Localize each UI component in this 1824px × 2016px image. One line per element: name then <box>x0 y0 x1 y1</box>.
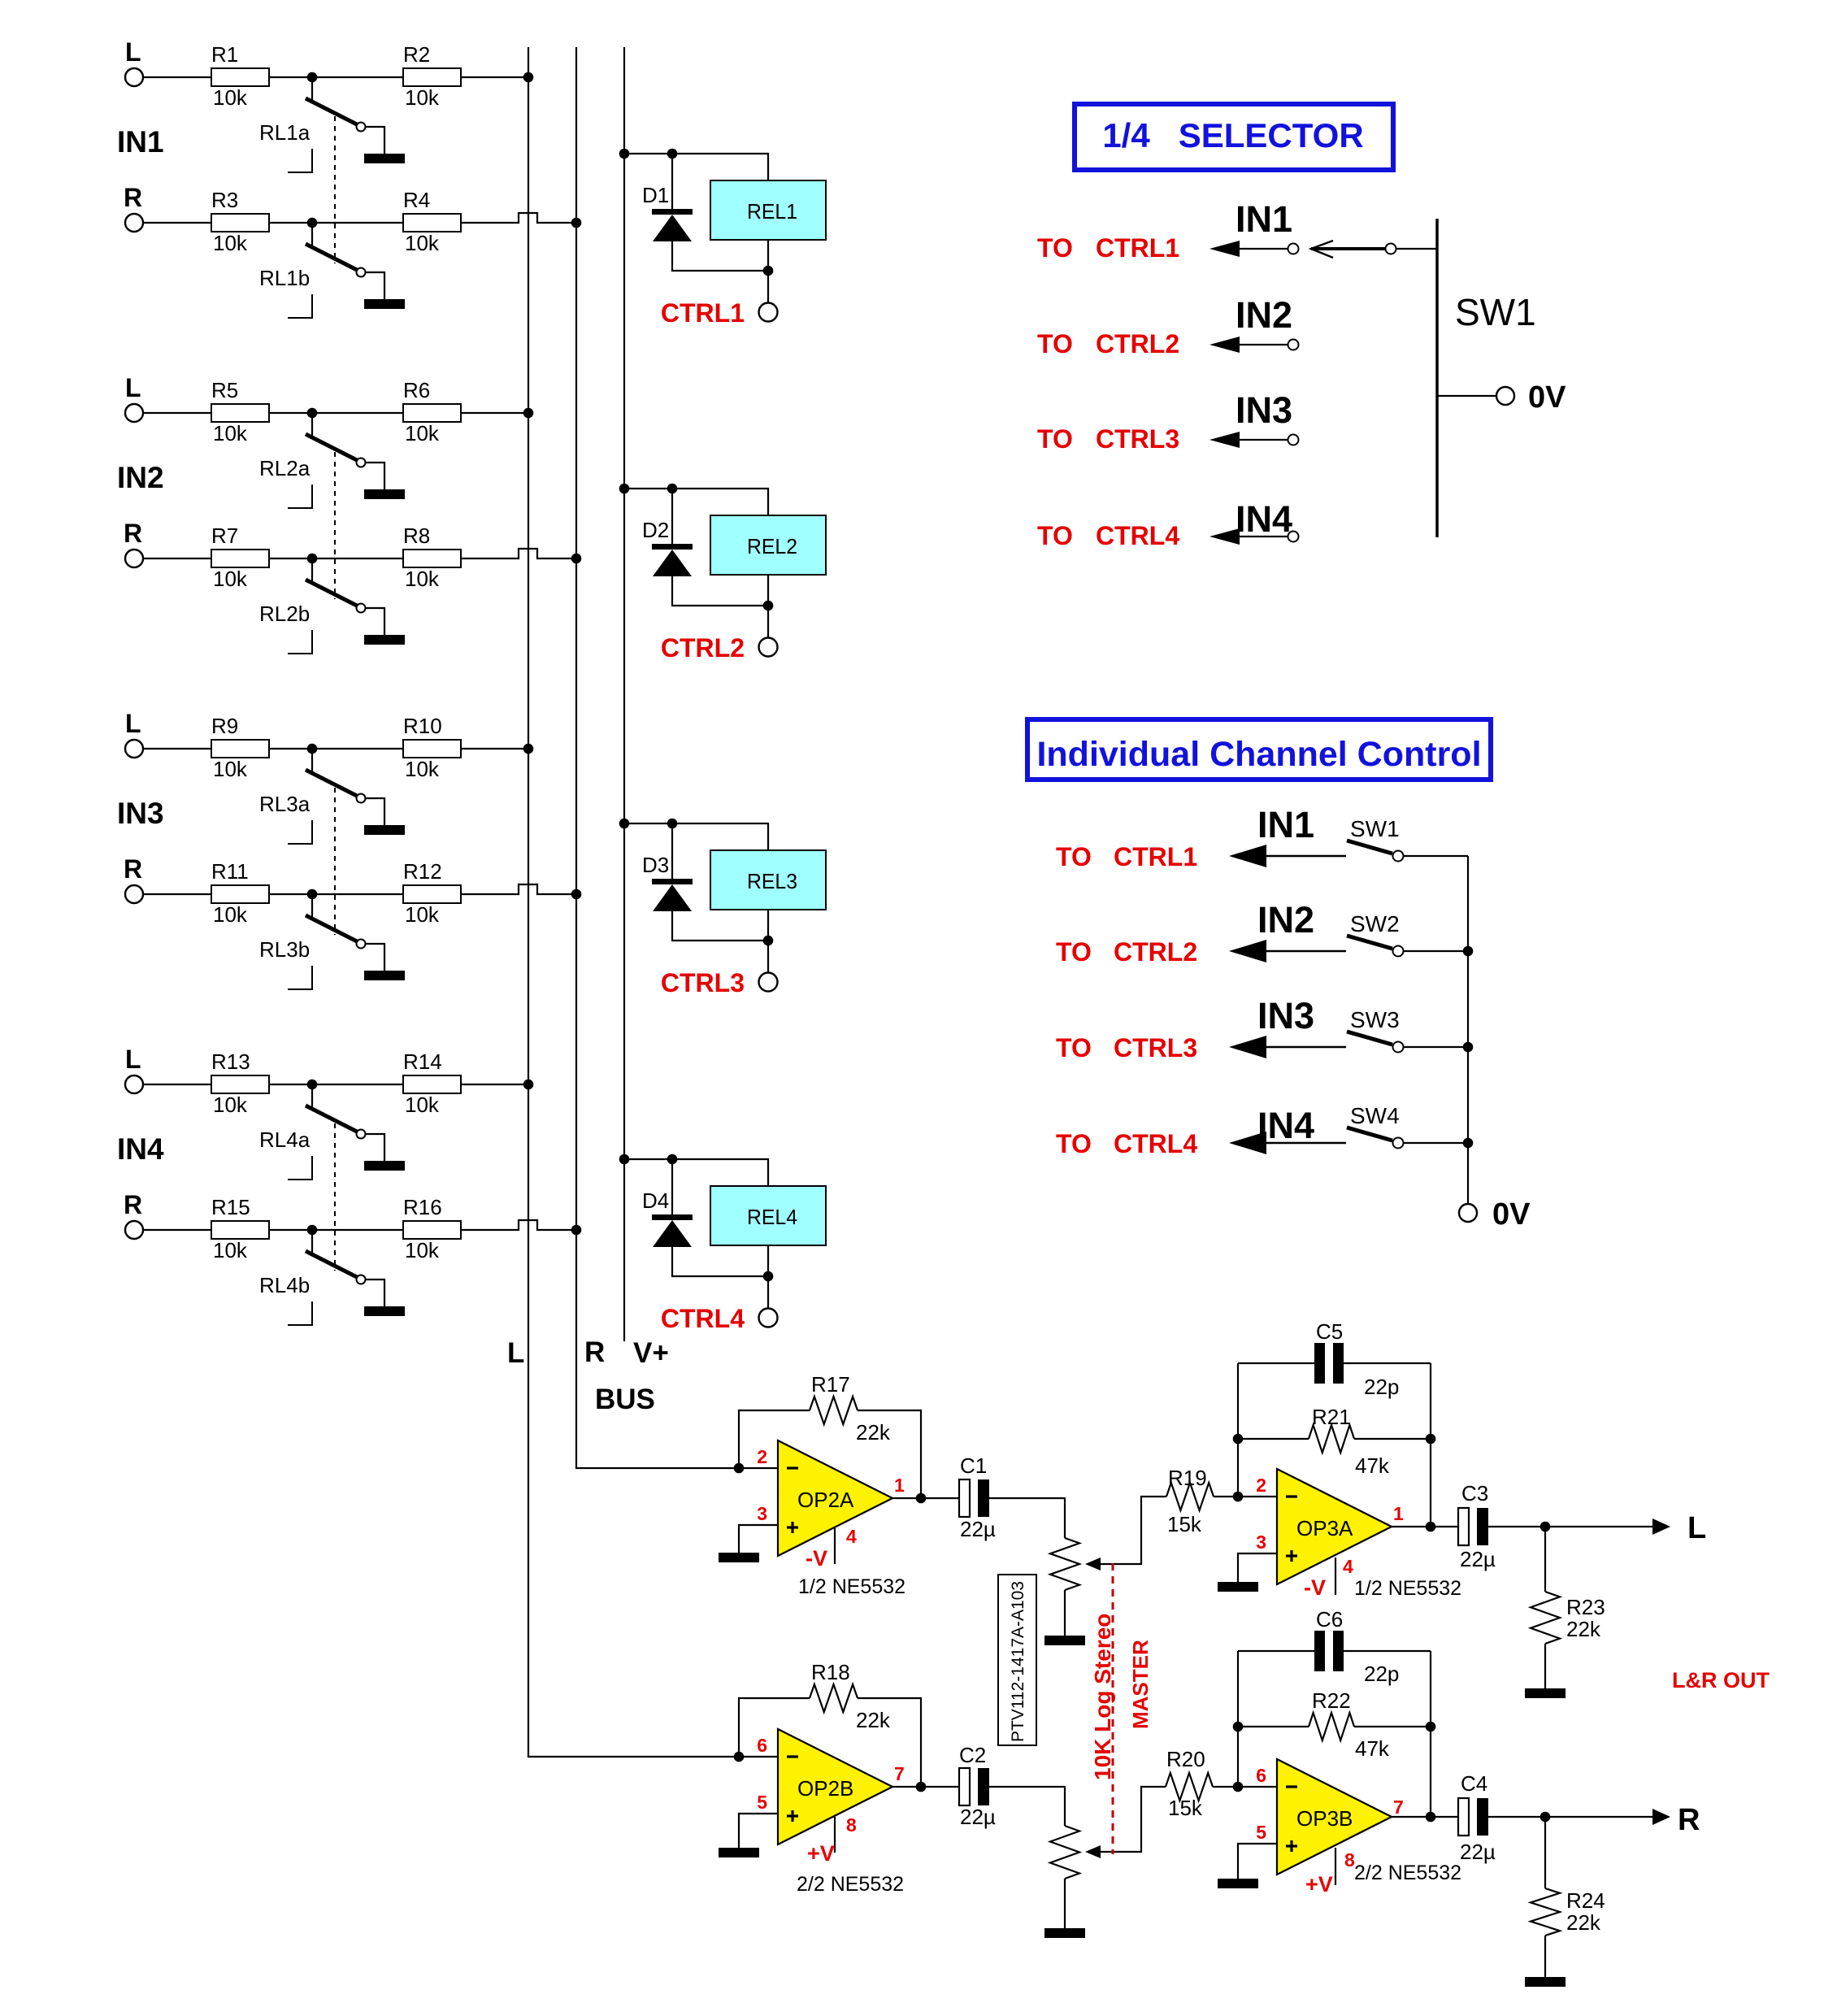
svg-text:R: R <box>124 1190 142 1219</box>
svg-text:10k: 10k <box>213 85 248 110</box>
ground <box>364 971 405 980</box>
wire <box>1404 1142 1468 1144</box>
svg-text:R: R <box>1678 1803 1700 1837</box>
capacitor C1 <box>959 1479 970 1517</box>
wire arrow to CTRL1 (individual) <box>1229 845 1266 867</box>
wire OP3B non-inverting input to ground <box>1238 1844 1277 1879</box>
node junction on R bus <box>571 889 582 900</box>
title box 1/4 SELECTOR <box>1075 104 1393 170</box>
svg-text:R4: R4 <box>403 188 430 212</box>
resistor R18 feedback <box>739 1698 810 1757</box>
wire <box>1064 1879 1066 1928</box>
node junction R3-R4 <box>307 218 318 228</box>
wire arrow R output <box>1652 1809 1670 1825</box>
svg-text:6: 6 <box>757 1735 767 1756</box>
svg-text:1/2 NE5532: 1/2 NE5532 <box>1354 1577 1461 1600</box>
svg-text:R6: R6 <box>403 378 430 402</box>
wire arrow to CTRL4 <box>1209 528 1240 545</box>
resistor R14 <box>403 1075 461 1093</box>
wire arrow L output <box>1652 1519 1670 1535</box>
svg-text:4: 4 <box>1343 1556 1353 1577</box>
relay contact RL4b <box>311 1230 313 1255</box>
relay coil REL1 <box>710 180 826 240</box>
resistor R1 <box>211 68 269 86</box>
relay contact RL2b <box>311 558 313 584</box>
svg-text:10k: 10k <box>405 1238 440 1262</box>
svg-text:R20: R20 <box>1166 1747 1205 1771</box>
relay coil REL4 <box>710 1186 826 1245</box>
capacitor C3 <box>1458 1508 1469 1545</box>
node junction <box>1426 1434 1436 1445</box>
ground <box>1525 1688 1566 1698</box>
svg-text:C2: C2 <box>959 1743 986 1767</box>
svg-text:R3: R3 <box>211 188 238 212</box>
svg-text:R19: R19 <box>1168 1466 1207 1490</box>
mechanical link RL2 <box>334 452 336 599</box>
svg-text:47k: 47k <box>1355 1736 1390 1761</box>
wire <box>767 575 769 606</box>
wire <box>143 1229 211 1231</box>
svg-text:R: R <box>124 519 142 548</box>
node junction R1-R2 <box>307 72 318 83</box>
node junction on 0V line <box>1463 1042 1474 1053</box>
svg-text:R12: R12 <box>403 859 442 884</box>
svg-text:RL3b: RL3b <box>259 937 310 962</box>
ground <box>364 635 405 645</box>
svg-text:RL4a: RL4a <box>259 1127 311 1152</box>
svg-text:IN4: IN4 <box>1257 1105 1314 1146</box>
resistor R6 <box>403 404 461 422</box>
node junction D4-REL4 <box>667 1154 678 1165</box>
actuator bracket RL1b <box>288 294 312 318</box>
svg-text:+V: +V <box>807 1841 835 1866</box>
svg-text:10k: 10k <box>405 902 440 927</box>
wire <box>672 241 768 271</box>
svg-text:-V: -V <box>806 1546 827 1571</box>
svg-text:D3: D3 <box>642 853 669 877</box>
svg-text:CTRL4: CTRL4 <box>1114 1129 1197 1158</box>
svg-text:22µ: 22µ <box>1460 1840 1496 1864</box>
ground <box>364 1306 405 1316</box>
actuator bracket RL3b <box>288 966 312 989</box>
node IN4 contact (selector) <box>1288 532 1299 542</box>
actuator bracket RL4a <box>288 1156 312 1180</box>
svg-text:CTRL3: CTRL3 <box>661 968 745 997</box>
svg-text:REL2: REL2 <box>747 534 797 558</box>
wire <box>1238 1786 1277 1788</box>
node junction on L bus <box>523 72 534 83</box>
wire <box>1404 1046 1468 1048</box>
wire <box>1238 1496 1277 1497</box>
wire <box>1392 1526 1458 1527</box>
node junction on V+ bus <box>619 149 630 159</box>
svg-text:L: L <box>125 373 141 402</box>
wire <box>312 558 403 559</box>
svg-text:10k: 10k <box>213 421 248 445</box>
relay coil REL3 <box>710 850 826 910</box>
wire pin 4 stub <box>834 1528 836 1564</box>
ground <box>364 1161 405 1171</box>
wire <box>767 910 769 941</box>
svg-text:R18: R18 <box>811 1660 850 1684</box>
node IN1 contact (selector) <box>1288 244 1299 254</box>
actuator bracket RL4b <box>288 1301 312 1325</box>
node junction <box>763 1271 774 1282</box>
svg-text:3: 3 <box>1256 1532 1266 1553</box>
wire <box>143 748 211 749</box>
svg-text:IN1: IN1 <box>1236 198 1292 240</box>
node junction on R bus <box>571 1225 582 1236</box>
wire <box>143 1084 211 1085</box>
wire <box>672 1247 768 1276</box>
svg-text:CTRL4: CTRL4 <box>1096 521 1179 550</box>
svg-text:10K Log Stereo: 10K Log Stereo <box>1090 1614 1115 1780</box>
svg-text:2/2 NE5532: 2/2 NE5532 <box>1354 1862 1461 1884</box>
wire <box>767 240 769 271</box>
node junction D3-REL3 <box>667 819 678 829</box>
node junction on R bus <box>571 554 582 564</box>
node junction R7-R8 <box>307 554 318 564</box>
ground <box>364 825 405 835</box>
wire hop over L bus <box>461 549 576 558</box>
svg-text:R24: R24 <box>1566 1888 1605 1913</box>
svg-text:1: 1 <box>1393 1503 1404 1524</box>
svg-text:L: L <box>125 709 141 738</box>
svg-text:R16: R16 <box>403 1195 442 1219</box>
svg-text:10k: 10k <box>213 1093 248 1117</box>
svg-text:R2: R2 <box>403 42 430 67</box>
svg-text:RL1a: RL1a <box>259 120 311 145</box>
svg-text:10k: 10k <box>405 757 440 781</box>
wire <box>366 944 384 971</box>
wire <box>366 127 384 154</box>
svg-text:IN2: IN2 <box>1236 294 1292 336</box>
svg-text:0V: 0V <box>1528 380 1566 415</box>
svg-text:BUS: BUS <box>595 1384 655 1415</box>
wire arrow to CTRL2 <box>1209 337 1240 353</box>
svg-text:REL4: REL4 <box>747 1205 797 1229</box>
resistor R2 <box>403 68 461 86</box>
svg-text:1/2 NE5532: 1/2 NE5532 <box>798 1575 905 1598</box>
wire <box>143 893 211 895</box>
wire <box>269 412 312 414</box>
node IN2 contact (selector) <box>1288 340 1299 350</box>
wire <box>624 488 672 489</box>
svg-text:IN1: IN1 <box>1257 804 1314 845</box>
actuator bracket RL2b <box>288 630 312 654</box>
diode D2 <box>671 489 673 544</box>
wire <box>1437 395 1496 397</box>
svg-text:10k: 10k <box>405 1093 440 1117</box>
resistor R9 <box>211 740 269 758</box>
svg-text:C3: C3 <box>1461 1481 1488 1505</box>
svg-text:CTRL3: CTRL3 <box>1114 1033 1197 1062</box>
wire <box>312 893 403 895</box>
svg-text:8: 8 <box>846 1814 857 1836</box>
svg-text:IN4: IN4 <box>117 1132 164 1166</box>
terminal CTRL1 <box>759 303 778 322</box>
wire <box>143 222 211 224</box>
svg-text:L: L <box>125 1045 141 1074</box>
resistor R24 <box>1544 1817 1546 1888</box>
wire arrow to CTRL3 (individual) <box>1229 1036 1266 1058</box>
wire <box>767 1276 769 1309</box>
ground <box>1218 1582 1258 1592</box>
diode D3 <box>671 823 673 879</box>
node junction on V+ bus <box>619 819 630 829</box>
wire <box>312 412 403 414</box>
svg-text:22p: 22p <box>1364 1662 1399 1686</box>
wire <box>366 463 384 489</box>
actuator bracket RL3a <box>288 820 312 844</box>
resistor R17 feedback <box>739 1410 810 1468</box>
svg-text:CTRL2: CTRL2 <box>1114 937 1197 967</box>
svg-text:PTV112-1417A-A103: PTV112-1417A-A103 <box>1009 1581 1027 1742</box>
capacitor C5 feedback <box>1238 1362 1314 1364</box>
wire <box>672 911 768 941</box>
svg-text:22µ: 22µ <box>1460 1547 1496 1571</box>
svg-text:5: 5 <box>757 1792 767 1813</box>
svg-text:IN4: IN4 <box>1236 498 1292 540</box>
ground <box>1044 1928 1085 1938</box>
wire feedback left rail OP3A <box>1237 1363 1239 1497</box>
wire <box>269 558 312 559</box>
svg-text:CTRL1: CTRL1 <box>1114 842 1197 871</box>
svg-text:10k: 10k <box>213 902 248 927</box>
diode D1 <box>671 154 673 209</box>
svg-text:C5: C5 <box>1316 1319 1343 1344</box>
wire <box>1404 855 1468 857</box>
svg-text:10k: 10k <box>405 85 440 110</box>
title box Individual Channel Control <box>1027 719 1491 780</box>
wire <box>672 1159 768 1186</box>
wire <box>767 606 769 638</box>
svg-text:C6: C6 <box>1316 1607 1343 1631</box>
capacitor C6 feedback <box>1238 1650 1314 1652</box>
wire <box>269 76 312 78</box>
wire <box>461 748 528 749</box>
wire V+ bus <box>623 47 625 1341</box>
wire <box>624 1158 672 1160</box>
svg-text:V+: V+ <box>633 1337 669 1369</box>
wire <box>892 1497 959 1499</box>
relay contact RL1a <box>311 77 313 102</box>
wire <box>1488 1816 1655 1818</box>
svg-text:RL3a: RL3a <box>259 792 311 816</box>
wire feedback right rail OP3B <box>1430 1651 1431 1817</box>
svg-text:10k: 10k <box>213 231 248 255</box>
svg-text:0V: 0V <box>1492 1197 1531 1232</box>
wire <box>269 1229 312 1231</box>
svg-text:MASTER: MASTER <box>1128 1640 1153 1729</box>
ground <box>364 154 405 163</box>
node junction on L bus <box>523 1080 534 1090</box>
svg-text:7: 7 <box>1393 1797 1404 1818</box>
node junction OP3A output <box>1426 1522 1436 1532</box>
svg-text:15k: 15k <box>1168 1796 1203 1820</box>
node junction on V+ bus <box>619 1154 630 1165</box>
node junction <box>763 936 774 946</box>
resistor R11 <box>211 885 269 903</box>
svg-text:47k: 47k <box>1355 1453 1390 1478</box>
resistor R5 <box>211 404 269 422</box>
resistor R16 <box>403 1221 461 1239</box>
relay contact RL4a <box>311 1084 313 1110</box>
svg-text:TO: TO <box>1056 842 1092 871</box>
svg-text:IN3: IN3 <box>1257 995 1314 1036</box>
wire L bus <box>528 47 778 1757</box>
op-amp U3B OP3B <box>1277 1759 1392 1875</box>
svg-text:3: 3 <box>757 1503 767 1524</box>
terminal CTRL2 <box>759 638 778 657</box>
wire <box>1392 1816 1458 1818</box>
node junction L output <box>1540 1522 1551 1532</box>
node junction on L bus <box>523 744 534 754</box>
wire <box>269 222 312 224</box>
wire feedback left rail OP3B <box>1237 1651 1239 1787</box>
svg-text:R17: R17 <box>811 1372 850 1397</box>
svg-text:10k: 10k <box>405 567 440 591</box>
relay contact RL3a <box>311 749 313 774</box>
svg-text:RL2a: RL2a <box>259 456 311 480</box>
svg-text:22k: 22k <box>1566 1910 1601 1935</box>
svg-text:R1: R1 <box>211 42 238 67</box>
wire <box>312 1229 403 1231</box>
svg-text:REL1: REL1 <box>747 199 797 224</box>
svg-text:R7: R7 <box>211 524 238 548</box>
wire feedback right rail OP3A <box>1430 1363 1431 1527</box>
wire arrow to CTRL1 <box>1209 241 1240 257</box>
node junction <box>1233 1434 1244 1445</box>
svg-text:IN2: IN2 <box>117 461 164 494</box>
svg-text:CTRL2: CTRL2 <box>1096 329 1179 358</box>
svg-text:22µ: 22µ <box>960 1517 996 1541</box>
svg-text:R13: R13 <box>211 1049 250 1074</box>
svg-text:R: R <box>584 1336 605 1368</box>
svg-text:C1: C1 <box>960 1453 987 1478</box>
wire <box>1213 1786 1238 1788</box>
resistor R20 <box>1166 1773 1213 1801</box>
wire arrow to CTRL2 (individual) <box>1229 940 1266 962</box>
wire <box>672 576 768 606</box>
wire hop over L bus <box>461 1220 576 1230</box>
wire <box>143 76 211 78</box>
capacitor C2 <box>959 1768 970 1805</box>
svg-text:2: 2 <box>757 1446 767 1467</box>
wire <box>461 1084 528 1085</box>
node junction <box>1233 1722 1244 1732</box>
resistor R19 <box>1166 1483 1214 1510</box>
relay contact RL3b <box>311 894 313 919</box>
svg-text:SW2: SW2 <box>1350 911 1400 936</box>
wire <box>624 153 672 154</box>
mechanical link RL1 <box>334 116 336 263</box>
switch SW1 common bar <box>1435 219 1439 537</box>
svg-text:OP2A: OP2A <box>797 1488 854 1512</box>
wire <box>269 893 312 895</box>
node junction <box>763 266 774 276</box>
svg-text:Individual Channel Control: Individual Channel Control <box>1036 735 1481 774</box>
resistor R8 <box>403 550 461 567</box>
terminal 0V (selector) <box>1496 387 1514 405</box>
svg-text:R15: R15 <box>211 1195 250 1219</box>
node junction on 0V line <box>1463 946 1474 957</box>
svg-text:IN3: IN3 <box>1236 389 1292 431</box>
wire arrow to CTRL4 (individual) <box>1229 1132 1266 1154</box>
wire hop over L bus <box>461 213 576 223</box>
svg-text:IN2: IN2 <box>1257 899 1314 941</box>
wire <box>624 823 672 824</box>
svg-text:OP2B: OP2B <box>797 1776 853 1801</box>
svg-text:10k: 10k <box>213 757 248 781</box>
wire <box>269 1084 312 1085</box>
op-amp U2A OP2A <box>778 1440 892 1556</box>
op-amp U3A OP3A <box>1277 1469 1392 1584</box>
mechanical link RL4 <box>334 1123 336 1271</box>
svg-text:SW1: SW1 <box>1455 291 1536 333</box>
switch SW4 <box>1347 1127 1392 1141</box>
ground <box>719 1553 759 1562</box>
wire <box>461 76 528 78</box>
svg-text:TO: TO <box>1056 937 1092 967</box>
wire OP2B non-inverting input to ground <box>739 1814 778 1848</box>
wire pin 4 stub <box>1335 1558 1336 1595</box>
wire <box>366 1280 384 1306</box>
svg-text:R5: R5 <box>211 378 238 402</box>
svg-text:SW4: SW4 <box>1350 1103 1400 1128</box>
wire <box>672 823 768 850</box>
node junction R5-R6 <box>307 408 318 419</box>
resistor R4 <box>403 214 461 232</box>
svg-text:22k: 22k <box>856 1420 891 1445</box>
wire R bus <box>576 47 778 1468</box>
node junction R output <box>1540 1812 1551 1823</box>
resistor R7 <box>211 550 269 567</box>
resistor R12 <box>403 885 461 903</box>
ground <box>1525 1977 1566 1987</box>
node junction on 0V line <box>1463 1138 1474 1149</box>
svg-text:D2: D2 <box>642 518 669 542</box>
relay contact RL1b <box>311 223 313 248</box>
svg-text:1: 1 <box>894 1475 905 1496</box>
svg-text:2/2 NE5532: 2/2 NE5532 <box>797 1873 904 1896</box>
node junction R13-R14 <box>307 1080 318 1090</box>
wire 0V line <box>1467 856 1469 1204</box>
svg-text:+V: +V <box>1305 1872 1333 1897</box>
node junction OP3A inverting input <box>1233 1492 1244 1502</box>
wire <box>461 412 528 414</box>
relay contact RL2a <box>311 413 313 438</box>
svg-text:1/4 SELECTOR: 1/4 SELECTOR <box>1102 116 1363 154</box>
wire <box>366 1134 384 1161</box>
wire pin 8 stub <box>1335 1848 1336 1885</box>
svg-text:-V: -V <box>1304 1575 1326 1600</box>
ground <box>364 299 405 309</box>
svg-text:R9: R9 <box>211 714 238 738</box>
svg-text:R: R <box>124 183 142 212</box>
potentiometer master L element <box>1050 1538 1079 1590</box>
svg-text:RL1b: RL1b <box>259 266 310 290</box>
node junction OP2B output <box>916 1782 927 1792</box>
svg-text:L&R OUT: L&R OUT <box>1672 1668 1770 1692</box>
svg-text:10k: 10k <box>405 231 440 255</box>
wire hop over L bus <box>461 884 576 894</box>
svg-text:TO: TO <box>1056 1129 1092 1158</box>
svg-text:10k: 10k <box>213 1238 248 1262</box>
resistor R21 feedback <box>1238 1438 1309 1440</box>
resistor R13 <box>211 1075 269 1093</box>
node junction <box>763 601 774 611</box>
